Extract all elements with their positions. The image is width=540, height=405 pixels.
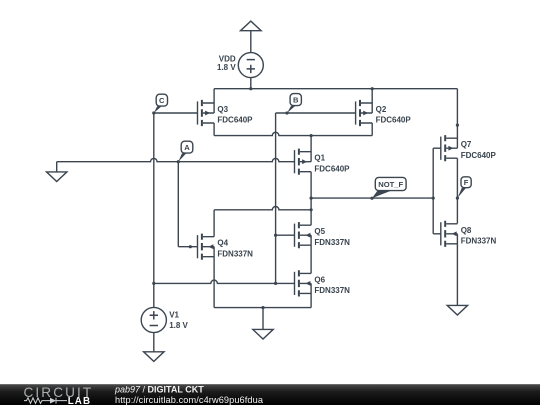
node C-Q6 junction bbox=[152, 282, 155, 285]
transistor Q2 bbox=[356, 100, 373, 126]
node B-end junction bbox=[274, 282, 277, 285]
wire Q4 top bbox=[213, 210, 215, 237]
svg-text:B: B bbox=[293, 96, 299, 105]
node Q4-gate pin junction bbox=[189, 245, 192, 248]
ground below Q8 bbox=[447, 305, 467, 315]
node A flag bbox=[178, 141, 193, 162]
node Q1-top junction bbox=[310, 134, 313, 137]
node rail-right segment junction bbox=[456, 124, 459, 127]
wire NOT_F bbox=[311, 197, 433, 199]
svg-text:F: F bbox=[464, 178, 469, 187]
wire V1 to bottom ground bbox=[153, 333, 155, 352]
transistor Q8 bbox=[441, 221, 458, 247]
wire Q4 drain y209.8 bbox=[214, 207, 311, 210]
wire Q7 gate stub bbox=[433, 147, 441, 149]
wire Q7 bottom to Q8 top bbox=[456, 158, 458, 223]
svg-text:Q4: Q4 bbox=[217, 239, 228, 248]
node F flag bbox=[457, 177, 471, 198]
svg-text:FDC640P: FDC640P bbox=[314, 164, 350, 173]
wire Q3 gate / node C bbox=[154, 112, 198, 114]
svg-text:FDC640P: FDC640P bbox=[461, 151, 497, 160]
node NOT_F flag bbox=[372, 177, 406, 198]
wire node A to left ground bbox=[56, 162, 58, 172]
svg-text:VDD: VDD bbox=[219, 55, 236, 64]
wire node C vertical to V1 bbox=[153, 113, 155, 307]
transistor Q7 bbox=[441, 135, 458, 161]
svg-text:FDN337N: FDN337N bbox=[314, 286, 350, 295]
ground left bbox=[47, 172, 67, 182]
ground middle bbox=[253, 329, 273, 339]
wire Q5 body-source to Q6 top bbox=[310, 235, 312, 273]
svg-text:Q3: Q3 bbox=[217, 105, 228, 114]
svg-text:Q8: Q8 bbox=[461, 226, 472, 235]
voltage source V1 bbox=[141, 307, 166, 332]
node Q5-gate junction bbox=[274, 234, 277, 237]
ground below V1 bbox=[144, 352, 164, 362]
transistor Q6 bbox=[295, 270, 312, 296]
svg-text:FDN337N: FDN337N bbox=[314, 238, 350, 247]
svg-text:Q2: Q2 bbox=[376, 105, 387, 114]
svg-text:Q6: Q6 bbox=[314, 275, 325, 284]
wire Q1 bottom bbox=[310, 172, 312, 198]
wire VDD to rail bbox=[250, 78, 252, 89]
wire Q3 drain-top bbox=[213, 89, 215, 113]
wire Q1-bottom to Q5 top bbox=[310, 198, 312, 225]
wire Q4 gate bbox=[178, 246, 197, 248]
wire Q2 source-bottom bbox=[371, 123, 373, 136]
footer bar bbox=[0, 384, 540, 405]
wire source line y307.6 bbox=[214, 307, 311, 309]
node A attach bbox=[177, 160, 180, 163]
svg-text:1.8 V: 1.8 V bbox=[169, 321, 188, 330]
node NOT_F-gates junction bbox=[432, 197, 435, 200]
transistor Q4 bbox=[198, 234, 215, 260]
node NOT_F start junction bbox=[310, 197, 313, 200]
node ground tee junction bbox=[261, 306, 264, 309]
wire node A horizontal bbox=[57, 158, 295, 161]
node Q4-drain junction bbox=[310, 208, 313, 211]
node NOT_F attach bbox=[370, 197, 373, 200]
node Q2-rail junction bbox=[371, 87, 374, 90]
wire Q1 top bbox=[310, 136, 312, 162]
node C flag bbox=[154, 94, 168, 113]
svg-text:A: A bbox=[184, 143, 190, 152]
wire top-ground to VDD bbox=[250, 31, 252, 53]
wire rail to Q7 top bbox=[456, 89, 458, 149]
svg-text:pab97 / DIGITAL CKT: pab97 / DIGITAL CKT bbox=[114, 385, 204, 395]
node B attach bbox=[285, 111, 288, 114]
voltage source VDD bbox=[238, 53, 263, 78]
transistor Q5 bbox=[295, 222, 312, 248]
svg-text:Q5: Q5 bbox=[314, 227, 325, 236]
wire node B vertical bbox=[275, 113, 277, 283]
svg-text:http://circuitlab.com/c4rw69pu: http://circuitlab.com/c4rw69pu6fdua bbox=[115, 395, 264, 405]
svg-text:FDN337N: FDN337N bbox=[461, 236, 497, 245]
wire Q6 body-source down bbox=[310, 283, 312, 307]
wire Q2 drain-top bbox=[371, 89, 373, 113]
ground (top, above VDD, apex up) bbox=[241, 21, 262, 31]
wire node A vertical bbox=[177, 162, 179, 247]
svg-text:LAB: LAB bbox=[68, 396, 91, 405]
transistor Q1 bbox=[295, 149, 312, 175]
wire VDD rail bbox=[214, 88, 457, 90]
wire Q2 gate / node B bbox=[276, 112, 356, 114]
wire Q8 body-source to ground bbox=[456, 234, 458, 306]
wire node C to Q6 gate y283.4 bbox=[154, 280, 295, 283]
svg-text:V1: V1 bbox=[169, 311, 179, 320]
node B flag bbox=[287, 94, 301, 113]
svg-text:FDC640P: FDC640P bbox=[376, 116, 412, 125]
wire Q5 gate bbox=[276, 234, 295, 236]
node F attach bbox=[456, 197, 459, 200]
svg-text:FDN337N: FDN337N bbox=[217, 249, 253, 258]
wire Q3/Q2 drains y135.6 bbox=[214, 132, 372, 135]
svg-text:C: C bbox=[159, 96, 165, 105]
wire middle ground stub bbox=[262, 308, 264, 330]
wire Q3 source-bottom bbox=[213, 123, 215, 136]
wire Q7 Q8 gate vertical bbox=[432, 148, 434, 234]
wire Q4 body-source down bbox=[213, 247, 215, 308]
svg-text:Q1: Q1 bbox=[314, 154, 325, 163]
transistor Q3 bbox=[198, 100, 215, 126]
svg-text:NOT_F: NOT_F bbox=[378, 180, 403, 189]
wire Q8 gate stub bbox=[433, 233, 441, 235]
node C attach bbox=[152, 111, 155, 114]
footer logo squiggle bbox=[24, 398, 67, 404]
node VDD-rail junction bbox=[249, 87, 252, 90]
svg-text:FDC640P: FDC640P bbox=[217, 116, 253, 125]
svg-text:Q7: Q7 bbox=[461, 140, 472, 149]
svg-text:1.8 V: 1.8 V bbox=[217, 63, 236, 72]
